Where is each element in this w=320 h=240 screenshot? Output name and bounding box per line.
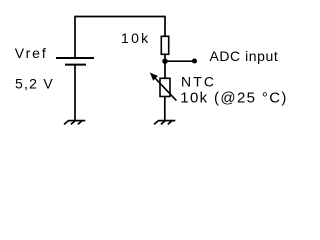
wire junction to ADC terminal xyxy=(165,60,195,62)
ground right xyxy=(154,120,175,124)
wire left vertical upper (Vref + to top) xyxy=(74,16,76,58)
svg-text:10k (@25 °C): 10k (@25 °C) xyxy=(180,89,287,106)
svg-text:NTC: NTC xyxy=(181,74,216,90)
ground left xyxy=(64,120,85,124)
wire top horizontal Vref to R1 xyxy=(75,16,165,18)
thermistor arrow head xyxy=(151,73,157,80)
wire left vertical lower (battery - to ground) xyxy=(74,65,76,121)
wire junction to NTC top xyxy=(164,61,166,78)
battery B1 positive plate xyxy=(56,57,94,59)
wire right vertical to resistor xyxy=(164,16,166,37)
thermistor arrow shaft xyxy=(155,78,176,100)
wire resistor bottom to junction xyxy=(164,54,166,62)
resistor R1 box xyxy=(161,36,168,54)
junction dot xyxy=(162,59,167,64)
battery B1 negative plate xyxy=(65,64,86,66)
thermistor NTC box xyxy=(160,78,170,96)
terminal dot ADC input xyxy=(192,58,197,63)
svg-text:Vref: Vref xyxy=(15,45,48,61)
svg-text:10k: 10k xyxy=(121,30,150,46)
svg-text:ADC input: ADC input xyxy=(210,48,279,64)
wire NTC bottom to ground xyxy=(164,97,166,121)
svg-text:5,2 V: 5,2 V xyxy=(15,75,54,91)
